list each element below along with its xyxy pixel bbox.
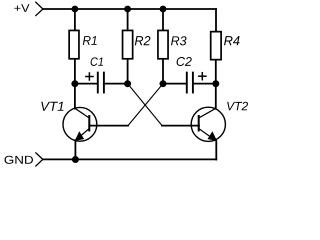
junction node A: R1/C1/VT1 collector bbox=[71, 80, 78, 87]
junction node: rail/R2 bbox=[124, 6, 131, 13]
resistor R2 bbox=[123, 30, 133, 58]
junction node: rail/R1 bbox=[72, 6, 79, 13]
capacitor C1 plates bbox=[97, 73, 99, 93]
transistor VT1 base bar bbox=[88, 116, 90, 131]
label R3 bbox=[171, 36, 187, 45]
wire: R1 bottom to VT1 collector (node A) bbox=[74, 59, 76, 109]
transistor VT1 emitter arrow bbox=[75, 131, 85, 141]
transistor VT2 collector slant bbox=[199, 108, 216, 118]
junction node B: R2/C1/cross wire bbox=[124, 80, 131, 87]
junction node: VT1 emitter/GND bbox=[72, 156, 79, 163]
wire: rail corner down to R4 bbox=[215, 9, 217, 31]
junction node C: R3/C2/cross wire bbox=[160, 80, 167, 87]
transistor VT1 body circle bbox=[63, 107, 97, 141]
transistor VT2 emitter slant bbox=[199, 129, 217, 142]
wire: R2 bottom to node B bbox=[127, 60, 129, 84]
wire: R4 bottom to VT2 collector (node D) bbox=[215, 61, 217, 109]
GND terminal chevron bbox=[36, 153, 43, 166]
transistor VT1 emitter slant bbox=[75, 129, 89, 141]
wire: rail to R3 bbox=[162, 9, 164, 30]
label R2 bbox=[135, 36, 151, 45]
wire: VT1 emitter to ground rail bbox=[74, 140, 76, 159]
label R4 bbox=[224, 36, 240, 45]
C1 polarity plus bbox=[86, 76, 93, 78]
+V terminal chevron bbox=[36, 2, 43, 15]
resistor R3 bbox=[158, 30, 168, 58]
resistor R4 bbox=[211, 32, 221, 60]
label GND bbox=[5, 156, 34, 164]
junction node: rail/R3 bbox=[160, 6, 167, 13]
capacitor C2 plates bbox=[186, 73, 188, 93]
+V supply rail wire bbox=[43, 8, 216, 10]
label R1 bbox=[83, 36, 97, 45]
transistor VT2 emitter arrow bbox=[208, 131, 218, 141]
label VT2 bbox=[227, 102, 248, 111]
resistor R1 bbox=[69, 30, 79, 58]
wire: rail to R2 bbox=[127, 9, 129, 30]
wire: C1 right plate to node B bbox=[104, 83, 128, 85]
wire: rail to R1 bbox=[74, 9, 76, 30]
C2 polarity plus bbox=[199, 75, 206, 77]
junction node D: R4/C2/VT2 collector bbox=[212, 80, 219, 87]
wire: node A to C1 left plate bbox=[75, 83, 98, 85]
wire: node B to VT2 base (cross-coupling) bbox=[128, 84, 162, 126]
GND rail wire bbox=[43, 158, 216, 160]
transistor VT2 base bar bbox=[198, 116, 200, 131]
label +V bbox=[14, 4, 29, 12]
wire: C2 right plate to node D bbox=[193, 83, 216, 85]
wire: node C to VT1 base (cross-coupling) bbox=[128, 84, 163, 126]
transistor VT1 collector slant bbox=[75, 108, 89, 118]
wire: VT2 emitter down to ground corner bbox=[215, 141, 217, 160]
label VT1 bbox=[41, 102, 63, 111]
wire: node C to C2 left plate bbox=[163, 83, 187, 85]
transistor VT2 body circle bbox=[191, 107, 225, 141]
wire: R3 bottom to node C bbox=[162, 60, 164, 84]
label C1 bbox=[91, 57, 103, 66]
label C2 bbox=[177, 57, 192, 66]
